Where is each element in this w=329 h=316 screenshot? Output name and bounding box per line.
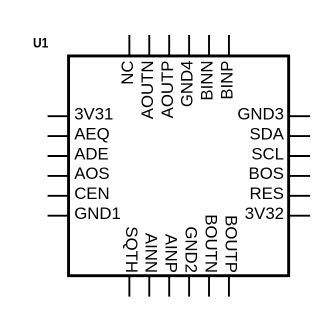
pin CEN wire xyxy=(48,195,70,197)
pin GND4 wire xyxy=(188,35,190,57)
pin GND2 wire xyxy=(188,275,190,297)
svg-text:BOS: BOS xyxy=(249,164,284,183)
pin SQTH wire xyxy=(128,275,130,297)
svg-text:AOUTN: AOUTN xyxy=(138,61,157,120)
svg-text:SQTH: SQTH xyxy=(122,226,141,273)
pin RES wire xyxy=(288,195,310,197)
pin AINP wire xyxy=(168,275,170,297)
pin 3V32 wire xyxy=(288,215,310,217)
pin AINN wire xyxy=(148,275,150,297)
pin AOUTP wire xyxy=(168,35,170,57)
svg-text:U1: U1 xyxy=(33,35,48,51)
svg-text:AOS: AOS xyxy=(74,164,109,183)
svg-text:AINN: AINN xyxy=(142,233,161,273)
pin ADE wire xyxy=(48,155,70,157)
svg-text:BINP: BINP xyxy=(218,60,237,99)
pin BOUTP wire xyxy=(228,275,230,297)
IC U1 body xyxy=(69,56,289,276)
pin GND3 wire xyxy=(288,115,310,117)
pin BOS wire xyxy=(288,175,310,177)
pin SDA wire xyxy=(288,135,310,137)
pin AOUTN wire xyxy=(148,35,150,57)
svg-text:SDA: SDA xyxy=(249,124,284,143)
svg-text:AEQ: AEQ xyxy=(74,124,109,143)
pin BOUTN wire xyxy=(208,275,210,297)
pin AOS wire xyxy=(48,175,70,177)
svg-text:AINP: AINP xyxy=(162,234,181,273)
svg-text:BOUTN: BOUTN xyxy=(201,214,220,273)
svg-text:CEN: CEN xyxy=(74,184,109,203)
svg-text:RES: RES xyxy=(249,184,284,203)
pin NC wire xyxy=(128,35,130,57)
svg-text:BOUTP: BOUTP xyxy=(221,215,240,273)
svg-text:ADE: ADE xyxy=(74,144,109,163)
svg-text:BINN: BINN xyxy=(198,61,217,101)
svg-text:GND3: GND3 xyxy=(237,105,284,124)
svg-text:GND2: GND2 xyxy=(182,226,201,273)
pin GND1 wire xyxy=(48,215,70,217)
pin 3V31 wire xyxy=(48,115,70,117)
svg-text:3V31: 3V31 xyxy=(74,105,113,124)
pin AEQ wire xyxy=(48,135,70,137)
svg-text:3V32: 3V32 xyxy=(245,204,284,223)
svg-text:SCL: SCL xyxy=(251,144,284,163)
svg-text:GND1: GND1 xyxy=(74,204,121,223)
svg-text:GND4: GND4 xyxy=(178,61,197,108)
pin BINP wire xyxy=(228,35,230,57)
svg-text:AOUTP: AOUTP xyxy=(158,61,177,119)
svg-text:NC: NC xyxy=(118,61,137,85)
pin BINN wire xyxy=(208,35,210,57)
pin SCL wire xyxy=(288,155,310,157)
